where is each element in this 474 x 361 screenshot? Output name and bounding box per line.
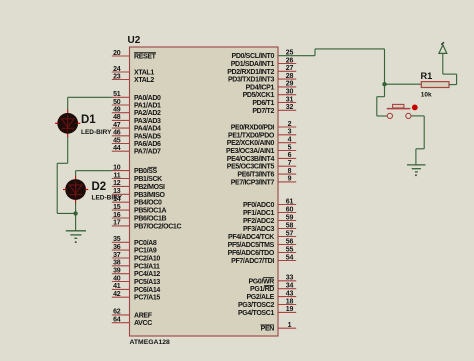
svg-text:PC2/A10: PC2/A10 <box>134 256 160 263</box>
pin 2 PE0/RXD0/PDI (right) <box>231 121 296 132</box>
svg-text:PE7/ICP3/INT7: PE7/ICP3/INT7 <box>231 179 275 186</box>
svg-text:PEN: PEN <box>261 326 275 333</box>
wire: PB0/SS pin 10 to LED D2 anode <box>76 171 112 177</box>
pin 34 PG1/RD (right) <box>250 283 296 294</box>
svg-text:PB3/MISO: PB3/MISO <box>134 192 166 199</box>
pin 5 PE3/OC3A/AIN1 (right) <box>226 144 296 155</box>
svg-text:PD0/SCL/INT0: PD0/SCL/INT0 <box>232 53 275 60</box>
svg-text:XTAL2: XTAL2 <box>134 77 154 84</box>
pin 16 PB6/OC1B (left) <box>112 212 167 223</box>
svg-text:61: 61 <box>286 198 294 205</box>
pin 54 PF7/ADC7/TDI (right) <box>231 254 296 265</box>
svg-text:8: 8 <box>288 168 292 175</box>
svg-text:PF4/ADC4/TCK: PF4/ADC4/TCK <box>228 234 274 241</box>
svg-text:LED-BIRY: LED-BIRY <box>92 195 123 202</box>
svg-text:55: 55 <box>286 246 294 253</box>
pin 62 AREF (left) <box>112 309 153 320</box>
pin 24 XTAL1 (left) <box>112 66 155 77</box>
svg-text:PE0/RXD0/PDI: PE0/RXD0/PDI <box>231 125 275 132</box>
svg-text:56: 56 <box>286 238 294 245</box>
pin 25 PD0/SCL/INT0 (right) <box>232 50 294 61</box>
svg-text:7: 7 <box>288 160 292 167</box>
svg-text:2: 2 <box>288 121 292 128</box>
pin 37 PC2/A10 (left) <box>112 252 161 263</box>
reference designator D2 <box>92 181 107 193</box>
svg-text:ATMEGA128: ATMEGA128 <box>130 339 171 346</box>
svg-text:PF3/ADC3: PF3/ADC3 <box>243 226 274 233</box>
pin 29 PD4/ICP1 (right) <box>246 81 297 92</box>
svg-text:U2: U2 <box>128 35 141 46</box>
pin 9 PE7/ICP3/INT7 (right) <box>231 176 297 187</box>
svg-text:PC4/A12: PC4/A12 <box>134 271 160 278</box>
svg-text:PG0/WR: PG0/WR <box>248 278 274 285</box>
pin 50 PA1/AD1 (left) <box>112 99 161 110</box>
svg-text:1: 1 <box>288 322 292 329</box>
pin 12 PB2/MOSI (left) <box>112 180 165 191</box>
ground symbol (LED net) <box>66 213 86 243</box>
ground symbol (button net) <box>407 165 426 176</box>
wire: button right terminal to ground <box>411 116 424 165</box>
wire: node A to button left terminal <box>377 84 387 116</box>
svg-text:PA1/AD1: PA1/AD1 <box>134 103 161 110</box>
svg-text:PB5/OC1A: PB5/OC1A <box>134 208 167 215</box>
reference designator U2 <box>128 35 141 46</box>
svg-text:23: 23 <box>113 73 121 80</box>
svg-text:AREF: AREF <box>134 312 153 319</box>
pin 44 PA7/AD7 (left) <box>112 145 161 156</box>
svg-text:58: 58 <box>286 222 294 229</box>
svg-text:42: 42 <box>113 291 121 298</box>
svg-text:39: 39 <box>113 268 121 275</box>
pin 41 PC6/A14 (left) <box>112 283 161 294</box>
svg-text:PB0/SS: PB0/SS <box>134 168 157 175</box>
svg-text:PA7/AD7: PA7/AD7 <box>134 149 161 156</box>
svg-text:PB7/OC2/OC1C: PB7/OC2/OC1C <box>134 223 181 230</box>
svg-text:18: 18 <box>286 298 294 305</box>
svg-text:4: 4 <box>288 137 292 144</box>
pin 35 PC0/A8 (left) <box>112 236 157 247</box>
pin 33 PG0/WR (right) <box>248 275 296 286</box>
push button <box>387 104 418 118</box>
svg-text:PE2/XCK0/AIN0: PE2/XCK0/AIN0 <box>227 140 275 147</box>
svg-text:31: 31 <box>286 96 294 103</box>
wire: D1 cathode to ground junction <box>57 137 75 214</box>
junction node A (R1 / button) <box>382 82 386 86</box>
svg-text:PD6/T1: PD6/T1 <box>252 100 274 107</box>
svg-text:59: 59 <box>286 214 294 221</box>
svg-text:PE5/OC3C/INT5: PE5/OC3C/INT5 <box>227 164 275 171</box>
svg-text:47: 47 <box>113 122 121 129</box>
svg-text:64: 64 <box>113 317 121 324</box>
pin 48 PA3/AD3 (left) <box>112 114 161 125</box>
svg-text:PA3/AD3: PA3/AD3 <box>134 118 161 125</box>
svg-text:36: 36 <box>113 244 121 251</box>
pin 46 PA5/AD5 (left) <box>112 130 161 141</box>
svg-text:37: 37 <box>113 252 121 259</box>
svg-text:12: 12 <box>113 180 121 187</box>
svg-text:D1: D1 <box>81 114 96 126</box>
svg-text:PF0/ADC0: PF0/ADC0 <box>243 202 274 209</box>
pin 56 PF5/ADC5/TMS (right) <box>228 238 297 249</box>
svg-text:44: 44 <box>113 145 121 152</box>
svg-text:PC0/A8: PC0/A8 <box>134 240 157 247</box>
svg-text:PE1/TXD0/PDO: PE1/TXD0/PDO <box>228 132 275 139</box>
value label ATMEGA128 <box>130 339 171 346</box>
svg-text:5: 5 <box>288 144 292 151</box>
wire: R1 right terminal to VCC power arrow <box>443 53 457 84</box>
svg-text:34: 34 <box>286 283 294 290</box>
pin 32 PD7/T2 (right) <box>252 104 296 115</box>
svg-text:46: 46 <box>113 130 121 137</box>
svg-text:PE6/T3/INT6: PE6/T3/INT6 <box>237 172 274 179</box>
svg-text:43: 43 <box>286 290 294 297</box>
svg-text:24: 24 <box>113 66 121 73</box>
svg-text:20: 20 <box>113 50 121 57</box>
wire: PD0 pin 25 to node A (R1/button junction) <box>278 49 385 84</box>
pin 38 PC3/A11 (left) <box>112 260 160 271</box>
svg-text:AVCC: AVCC <box>134 320 152 327</box>
svg-text:PC3/A11: PC3/A11 <box>134 263 160 270</box>
svg-text:17: 17 <box>113 220 121 227</box>
svg-text:PB6/OC1B: PB6/OC1B <box>134 216 167 223</box>
svg-text:6: 6 <box>288 152 292 159</box>
svg-text:PE3/OC3A/AIN1: PE3/OC3A/AIN1 <box>226 148 274 155</box>
power terminal (VCC arrow) <box>439 42 447 53</box>
svg-text:PE4/OC3B/INT4: PE4/OC3B/INT4 <box>227 156 275 163</box>
svg-text:32: 32 <box>286 104 294 111</box>
pin 14 PB4/OC0 (left) <box>112 196 162 207</box>
value label 10k <box>421 92 432 99</box>
svg-text:PD5/XCK1: PD5/XCK1 <box>243 92 275 99</box>
svg-text:PA2/AD2: PA2/AD2 <box>134 110 161 117</box>
svg-text:LED-BIRY: LED-BIRY <box>81 129 112 136</box>
svg-text:PB1/SCK: PB1/SCK <box>134 176 162 183</box>
pin 60 PF1/ADC1 (right) <box>243 206 296 217</box>
svg-text:PC1/A9: PC1/A9 <box>134 248 157 255</box>
svg-text:PB2/MOSI: PB2/MOSI <box>134 184 165 191</box>
svg-text:54: 54 <box>286 254 294 261</box>
svg-text:28: 28 <box>286 73 294 80</box>
svg-text:9: 9 <box>288 176 292 183</box>
svg-text:PG2/ALE: PG2/ALE <box>246 294 274 301</box>
svg-text:49: 49 <box>113 107 121 114</box>
pin 36 PC1/A9 (left) <box>112 244 157 255</box>
svg-text:PA4/AD4: PA4/AD4 <box>134 126 161 133</box>
pin 61 PF0/ADC0 (right) <box>243 198 296 209</box>
svg-text:D2: D2 <box>92 181 107 193</box>
svg-text:3: 3 <box>288 129 292 136</box>
pin 15 PB5/OC1A (left) <box>112 204 167 215</box>
pin 18 PG3/TOSC2 (right) <box>238 298 296 309</box>
svg-text:PD7/T2: PD7/T2 <box>252 108 274 115</box>
svg-text:50: 50 <box>113 99 121 106</box>
pin 31 PD6/T1 (right) <box>252 96 296 107</box>
pin 23 XTAL2 (left) <box>112 73 155 84</box>
svg-text:41: 41 <box>113 283 121 290</box>
pin 64 AVCC (left) <box>112 317 152 328</box>
svg-text:29: 29 <box>286 81 294 88</box>
svg-text:PG4/TOSC1: PG4/TOSC1 <box>238 310 274 317</box>
svg-text:60: 60 <box>286 206 294 213</box>
junction: LED cathodes / ground node <box>73 211 77 215</box>
svg-text:PA6/AD6: PA6/AD6 <box>134 141 161 148</box>
svg-text:45: 45 <box>113 137 121 144</box>
pin 4 PE2/XCK0/AIN0 (right) <box>227 137 296 148</box>
pin 49 PA2/AD2 (left) <box>112 107 161 118</box>
svg-text:RESET: RESET <box>134 54 157 61</box>
pin 10 PB0/SS (left) <box>112 164 158 175</box>
svg-text:57: 57 <box>286 230 294 237</box>
pin 19 PG4/TOSC1 (right) <box>238 306 296 317</box>
pin 55 PF6/ADC6/TDO (right) <box>228 246 297 257</box>
svg-text:16: 16 <box>113 212 121 219</box>
wire: node A to R1 left terminal <box>385 83 422 85</box>
svg-text:10: 10 <box>113 164 121 171</box>
pin 57 PF4/ADC4/TCK (right) <box>228 230 296 241</box>
svg-text:PC5/A13: PC5/A13 <box>134 279 160 286</box>
LED D2 <box>63 176 88 203</box>
svg-text:PF6/ADC6/TDO: PF6/ADC6/TDO <box>228 250 275 257</box>
svg-text:27: 27 <box>286 65 294 72</box>
value label LED-BIRY (D1) <box>81 129 112 136</box>
svg-text:PA5/AD5: PA5/AD5 <box>134 133 161 140</box>
pin 47 PA4/AD4 (left) <box>112 122 161 133</box>
svg-text:PF1/ADC1: PF1/ADC1 <box>243 210 274 217</box>
pin 42 PC7/A15 (left) <box>112 291 161 302</box>
pin 26 PD1/SDA/INT1 (right) <box>231 57 296 68</box>
svg-text:10k: 10k <box>421 92 432 99</box>
value label LED-BIRY (D2) <box>92 195 123 202</box>
svg-text:PD2/RXD1/INT2: PD2/RXD1/INT2 <box>227 69 274 76</box>
svg-text:38: 38 <box>113 260 121 267</box>
svg-text:PG3/TOSC2: PG3/TOSC2 <box>238 302 274 309</box>
svg-text:PD3/TXD1/INT3: PD3/TXD1/INT3 <box>228 77 274 84</box>
svg-text:PF5/ADC5/TMS: PF5/ADC5/TMS <box>228 242 275 249</box>
pin 20 RESET (left) <box>112 50 157 61</box>
pin 3 PE1/TXD0/PDO (right) <box>228 129 296 140</box>
pin 43 PG2/ALE (right) <box>246 290 296 301</box>
wire: PA0/AD0 pin 51 to LED D1 anode <box>68 97 112 110</box>
pin 45 PA6/AD6 (left) <box>112 137 161 148</box>
svg-text:19: 19 <box>286 306 294 313</box>
pin 6 PE4/OC3B/INT4 (right) <box>227 152 296 163</box>
reference designator R1 <box>421 71 433 81</box>
pin 51 PA0/AD0 (left) <box>112 91 161 102</box>
svg-text:51: 51 <box>113 91 121 98</box>
pin 40 PC5/A13 (left) <box>112 275 161 286</box>
svg-text:PF2/ADC2: PF2/ADC2 <box>243 218 274 225</box>
pin 11 PB1/SCK (left) <box>112 172 162 183</box>
svg-text:XTAL1: XTAL1 <box>134 70 154 77</box>
IC U2 body (ATMEGA128) <box>130 47 279 336</box>
svg-text:PG1/RD: PG1/RD <box>250 286 274 293</box>
svg-text:11: 11 <box>114 172 121 179</box>
svg-text:PA0/AD0: PA0/AD0 <box>134 95 161 102</box>
resistor R1 <box>421 82 449 88</box>
pin 7 PE5/OC3C/INT5 (right) <box>227 160 296 171</box>
svg-text:PB4/OC0: PB4/OC0 <box>134 200 162 207</box>
svg-text:PD4/ICP1: PD4/ICP1 <box>246 84 275 91</box>
svg-text:PD1/SDA/INT1: PD1/SDA/INT1 <box>231 61 275 68</box>
pin 1 PEN (right) <box>260 322 296 333</box>
svg-text:PC7/A15: PC7/A15 <box>134 295 160 302</box>
reference designator D1 <box>81 114 96 126</box>
pin 27 PD2/RXD1/INT2 (right) <box>227 65 296 76</box>
pin 8 PE6/T3/INT6 (right) <box>237 168 296 179</box>
svg-text:26: 26 <box>286 57 294 64</box>
pin 58 PF3/ADC3 (right) <box>243 222 296 233</box>
svg-text:30: 30 <box>286 89 294 96</box>
pin 13 PB3/MISO (left) <box>112 188 166 199</box>
LED D1 <box>55 110 80 137</box>
svg-text:15: 15 <box>113 204 121 211</box>
svg-text:35: 35 <box>113 236 121 243</box>
svg-text:62: 62 <box>113 309 121 316</box>
svg-text:PC6/A14: PC6/A14 <box>134 287 160 294</box>
pin 17 PB7/OC2/OC1C (left) <box>112 220 182 231</box>
svg-text:33: 33 <box>286 275 294 282</box>
wire: D2 cathode to ground junction <box>75 203 77 214</box>
svg-text:R1: R1 <box>421 71 433 81</box>
pin 28 PD3/TXD1/INT3 (right) <box>228 73 296 84</box>
pin 59 PF2/ADC2 (right) <box>243 214 296 225</box>
pin 39 PC4/A12 (left) <box>112 268 161 279</box>
svg-text:48: 48 <box>113 114 121 121</box>
pin 30 PD5/XCK1 (right) <box>243 89 297 100</box>
svg-text:40: 40 <box>113 275 121 282</box>
svg-text:PF7/ADC7/TDI: PF7/ADC7/TDI <box>231 258 274 265</box>
